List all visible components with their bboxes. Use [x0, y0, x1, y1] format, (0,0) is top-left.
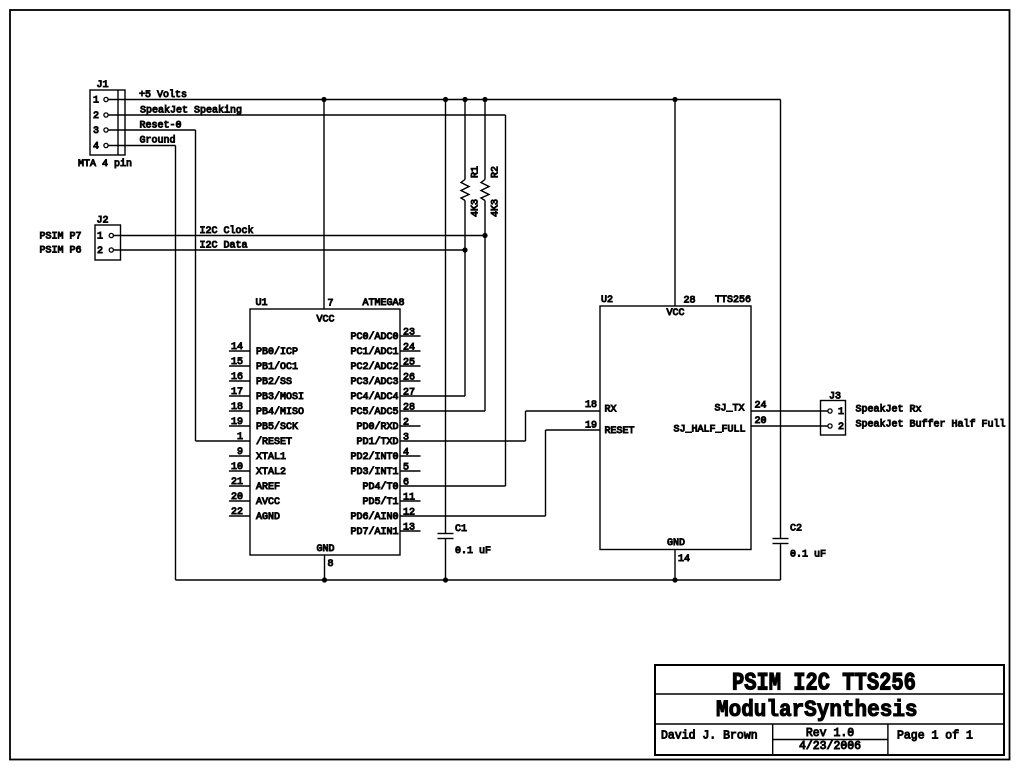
svg-text:SpeakJet Rx: SpeakJet Rx [856, 404, 922, 416]
svg-text:PD7/AIN1: PD7/AIN1 [350, 526, 398, 538]
svg-text:12: 12 [403, 508, 415, 519]
svg-text:2: 2 [97, 246, 103, 257]
svg-text:3: 3 [93, 126, 99, 137]
svg-text:PB2/SS: PB2/SS [256, 376, 292, 388]
svg-text:PB4/MISO: PB4/MISO [256, 406, 304, 418]
svg-text:SJ_TX: SJ_TX [714, 404, 744, 415]
svg-text:PD2/INT0: PD2/INT0 [350, 451, 398, 463]
svg-text:PD5/T1: PD5/T1 [362, 496, 398, 508]
svg-text:13: 13 [403, 523, 415, 534]
svg-text:8: 8 [328, 559, 334, 570]
svg-text:3: 3 [403, 433, 409, 444]
svg-text:PB3/MOSI: PB3/MOSI [256, 391, 304, 403]
svg-text:24: 24 [403, 343, 415, 354]
svg-text:ModularSynthesis: ModularSynthesis [716, 697, 918, 723]
svg-text:GND: GND [317, 544, 335, 555]
svg-text:David J. Brown: David J. Brown [661, 730, 758, 743]
svg-text:6: 6 [403, 478, 409, 489]
svg-text:VCC: VCC [317, 315, 335, 326]
svg-text:RX: RX [605, 405, 617, 416]
svg-text:AVCC: AVCC [256, 497, 280, 508]
svg-text:PD4/T0: PD4/T0 [362, 481, 398, 493]
svg-text:11: 11 [403, 493, 415, 504]
svg-text:PB0/ICP: PB0/ICP [256, 346, 298, 358]
svg-text:PC0/ADC0: PC0/ADC0 [350, 331, 398, 343]
svg-text:2: 2 [93, 111, 99, 122]
svg-text:GND: GND [667, 538, 685, 549]
svg-text:R2: R2 [491, 166, 502, 178]
svg-text:AGND: AGND [256, 512, 280, 523]
svg-text:2: 2 [403, 418, 409, 429]
svg-text:4: 4 [403, 448, 409, 459]
svg-text:PB1/OC1: PB1/OC1 [256, 361, 298, 373]
svg-text:PD1/TXD: PD1/TXD [356, 436, 398, 448]
svg-text:U1: U1 [256, 298, 268, 309]
svg-text:PSIM P7: PSIM P7 [40, 232, 82, 243]
svg-text:PSIM P6: PSIM P6 [40, 246, 82, 257]
svg-text:SpeakJet Buffer Half Full: SpeakJet Buffer Half Full [856, 419, 1006, 431]
svg-text:7: 7 [328, 299, 334, 310]
svg-text:C1: C1 [455, 524, 467, 535]
svg-text:/RESET: /RESET [256, 436, 292, 448]
svg-text:24: 24 [755, 401, 767, 412]
svg-text:18: 18 [585, 400, 597, 411]
svg-text:PD0/RXD: PD0/RXD [356, 421, 398, 433]
svg-text:PB5/SCK: PB5/SCK [256, 421, 298, 433]
svg-text:4: 4 [93, 142, 99, 153]
svg-text:C2: C2 [790, 524, 802, 535]
svg-text:Ground: Ground [140, 135, 176, 147]
svg-text:J3: J3 [829, 392, 841, 403]
svg-text:PC3/ADC3: PC3/ADC3 [350, 376, 398, 388]
svg-text:R1: R1 [471, 166, 482, 178]
svg-text:26: 26 [403, 373, 415, 384]
svg-text:2: 2 [838, 422, 844, 433]
svg-text:AREF: AREF [256, 482, 280, 493]
svg-text:PD3/INT1: PD3/INT1 [350, 466, 398, 478]
svg-text:27: 27 [403, 388, 415, 399]
svg-text:TTS256: TTS256 [715, 295, 751, 306]
svg-text:1: 1 [838, 407, 844, 418]
svg-text:PC2/ADC2: PC2/ADC2 [350, 361, 398, 373]
svg-text:PC5/ADC5: PC5/ADC5 [350, 406, 398, 418]
svg-text:PC4/ADC4: PC4/ADC4 [350, 391, 398, 403]
svg-text:XTAL1: XTAL1 [256, 452, 286, 463]
svg-text:0.1 uF: 0.1 uF [790, 550, 826, 561]
svg-text:5: 5 [403, 463, 409, 474]
svg-text:28: 28 [403, 403, 415, 414]
svg-text:SJ_HALF_FULL: SJ_HALF_FULL [673, 425, 745, 436]
svg-text:PSIM I2C TTS256: PSIM I2C TTS256 [732, 669, 916, 697]
svg-text:Page 1 of 1: Page 1 of 1 [897, 730, 973, 743]
svg-text:XTAL2: XTAL2 [256, 467, 286, 478]
svg-text:28: 28 [684, 296, 696, 307]
svg-text:4/23/2006: 4/23/2006 [799, 740, 861, 753]
svg-text:U2: U2 [601, 295, 613, 306]
svg-text:23: 23 [403, 328, 415, 339]
svg-text:0.1 uF: 0.1 uF [455, 546, 491, 557]
svg-text:J1: J1 [97, 80, 109, 91]
svg-text:4K3: 4K3 [471, 199, 482, 217]
svg-text:14: 14 [678, 554, 690, 565]
svg-text:4K3: 4K3 [491, 199, 502, 217]
svg-text:PD6/AIN0: PD6/AIN0 [350, 511, 398, 523]
svg-text:MTA 4 pin: MTA 4 pin [78, 158, 132, 170]
svg-text:1: 1 [97, 232, 103, 243]
svg-text:Rev 1.0: Rev 1.0 [806, 727, 854, 740]
svg-text:RESET: RESET [605, 426, 635, 437]
svg-text:1: 1 [93, 96, 99, 107]
svg-text:J2: J2 [97, 216, 109, 227]
svg-text:PC1/ADC1: PC1/ADC1 [350, 346, 398, 358]
svg-text:VCC: VCC [667, 308, 685, 319]
svg-text:25: 25 [403, 358, 415, 369]
svg-text:ATMEGA8: ATMEGA8 [363, 298, 405, 309]
